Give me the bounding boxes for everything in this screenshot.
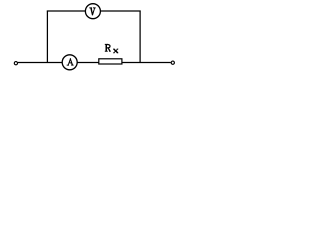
terminal left	[14, 62, 17, 65]
wire left vertical segment	[46, 11, 48, 63]
resistor Rx	[99, 59, 122, 64]
label Rx	[105, 44, 119, 53]
wire right vertical segment	[139, 11, 141, 63]
wire bottom segment: left terminal to ammeter	[18, 62, 63, 64]
voltmeter U1 (V)	[85, 4, 100, 19]
wire bottom segment: resistor Rx to right terminal	[122, 62, 171, 64]
ammeter A1 (A)	[62, 55, 77, 70]
terminal right	[171, 61, 174, 64]
wire bottom segment: ammeter to resistor Rx	[77, 62, 98, 64]
wire top-left horizontal segment	[47, 10, 85, 12]
wire top-right horizontal segment	[101, 10, 141, 12]
